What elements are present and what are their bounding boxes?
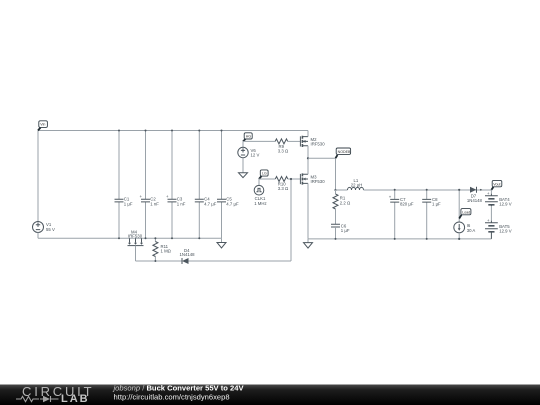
svg-text:1N4148: 1N4148 (467, 198, 483, 203)
svg-text:1 µF: 1 µF (432, 202, 441, 207)
resistor R11 (153, 238, 172, 261)
wire HG to R9 (243, 140, 275, 142)
wire switch node to NODEB (308, 158, 336, 190)
flag NODEB (336, 148, 351, 158)
wire V1 bottom lead (37, 233, 39, 239)
svg-text:12.9 V: 12.9 V (499, 202, 512, 207)
svg-text:IRF530: IRF530 (311, 179, 326, 184)
current source I6 load (454, 190, 476, 239)
wire gate lower run (136, 260, 182, 262)
svg-text:HG: HG (246, 135, 252, 139)
battery BAT4 (485, 190, 512, 207)
svg-text:LG: LG (262, 172, 267, 176)
node R10 M3 gate junction (290, 178, 292, 180)
voltage source V6 (238, 141, 260, 157)
svg-text:1 nF: 1 nF (150, 201, 159, 206)
node dots input top rail (118, 130, 120, 132)
wire gate riser (290, 179, 292, 261)
node dots input bottom rail (118, 237, 120, 239)
svg-text:1N4148: 1N4148 (180, 252, 196, 257)
capacitor C6 (331, 223, 350, 239)
svg-text:NODEB: NODEB (338, 150, 351, 154)
svg-text:1 nF: 1 nF (177, 201, 186, 206)
node NODEB L1 R1 junction (334, 189, 336, 191)
svg-text:3.3 Ω: 3.3 Ω (278, 186, 289, 191)
clock source CLK1 (254, 179, 266, 206)
svg-text:30 A: 30 A (467, 228, 476, 233)
resistor R10 (275, 177, 300, 192)
wire top rail (38, 130, 308, 132)
diode D7 (467, 187, 483, 203)
svg-text:1 MHz: 1 MHz (254, 201, 266, 206)
svg-text:2.2 Ω: 2.2 Ω (340, 200, 351, 205)
flag LG (259, 170, 268, 179)
capacitor C3 (166, 131, 186, 239)
wire M4 gate down (135, 246, 137, 261)
wire LG to R10 (259, 178, 275, 180)
svg-text:IRF530: IRF530 (128, 234, 143, 239)
ground input rail (217, 238, 226, 248)
diode D4 (180, 248, 292, 264)
svg-text:4.7 µF: 4.7 µF (204, 201, 217, 206)
flag HG (243, 133, 252, 142)
logo symbol (16, 396, 59, 402)
battery BAT5 (485, 218, 512, 239)
inductor L1 (336, 178, 492, 190)
transistor M2 (300, 131, 325, 159)
svg-text:1 MΩ: 1 MΩ (161, 249, 172, 254)
svg-text:55 V: 55 V (46, 227, 55, 232)
voltage source V1 (33, 222, 55, 233)
wire input bottom rail (38, 237, 222, 239)
capacitor C2 (140, 131, 160, 239)
svg-text:jobsonp / Buck Converter 55V t: jobsonp / Buck Converter 55V to 24V (113, 383, 245, 392)
svg-text:1 µF: 1 µF (124, 201, 133, 206)
capacitor C4 (195, 131, 217, 239)
transistor M3 (300, 158, 325, 239)
svg-text:1 µF: 1 µF (341, 228, 350, 233)
svg-text:22 µH: 22 µH (351, 183, 363, 188)
svg-text:Load: Load (462, 210, 470, 214)
svg-text:Vout: Vout (493, 182, 500, 186)
capacitor C8 (422, 190, 441, 239)
flag Load (459, 209, 471, 219)
svg-text:12.9 V: 12.9 V (499, 229, 512, 234)
svg-text:LAB: LAB (61, 393, 90, 405)
wire output bottom rail (308, 238, 491, 240)
wire V1 top lead (37, 131, 39, 222)
svg-text:Vin: Vin (40, 123, 45, 127)
svg-text:4.7 µF: 4.7 µF (226, 201, 239, 206)
ground V6 (239, 158, 248, 178)
transistor M4 (128, 229, 144, 245)
flag Vout (491, 180, 501, 189)
capacitor C1 (115, 131, 133, 239)
resistor R1 (333, 190, 351, 224)
wire between batteries (490, 206, 492, 220)
svg-text:820 µF: 820 µF (400, 202, 414, 207)
svg-text:IRF530: IRF530 (311, 142, 326, 147)
resistor R9 (275, 139, 300, 154)
svg-text:3.3 Ω: 3.3 Ω (278, 149, 289, 154)
capacitor C5 (217, 131, 239, 239)
capacitor C7 (389, 190, 414, 239)
ground M3 source (304, 239, 313, 248)
flag Vin (38, 121, 47, 131)
svg-text:http://circuitlab.com/ctnjsdyn: http://circuitlab.com/ctnjsdyn6xep8 (114, 392, 230, 401)
svg-text:12 V: 12 V (251, 153, 260, 158)
node D7 cathode (480, 189, 482, 191)
node switch node (307, 157, 309, 159)
